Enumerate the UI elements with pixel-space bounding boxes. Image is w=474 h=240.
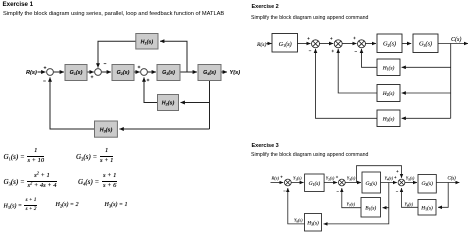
block ex3 G2: [362, 172, 381, 193]
svg-text:H2(s): H2(s): [382, 90, 395, 97]
sign plus at sum2: [91, 76, 94, 79]
sign minus sum3: [355, 51, 357, 53]
sign minus sum1: [283, 190, 285, 192]
summing junction sum2: [95, 69, 102, 76]
summing junction ex2 sum1: [312, 40, 320, 48]
sign minus sum3: [396, 191, 398, 193]
sign plus bypass into sum3: [396, 170, 398, 172]
block ex2 G3: [413, 34, 438, 53]
svg-text:G3(s): G3(s): [421, 180, 433, 187]
wire B1 output to sum2: [342, 188, 361, 208]
Exercise 3 subtitle: [251, 152, 368, 158]
svg-text:H3(s): H3(s): [306, 220, 319, 227]
summing junction ex3 sum3: [398, 179, 405, 186]
summing junction ex2 sum3: [358, 40, 366, 48]
svg-text:Y5(s): Y5(s): [406, 176, 415, 182]
wire G2 to sum3: [134, 71, 140, 73]
formula H2: [56, 202, 79, 208]
summing junction ex3 sum1: [284, 179, 291, 186]
formula G3: [4, 174, 57, 191]
svg-text:B1(s): B1(s): [365, 205, 376, 212]
svg-text:G1(s): G1(s): [279, 41, 292, 48]
Exercise 1 subtitle: [3, 11, 224, 17]
svg-text:G2(s): G2(s): [365, 180, 377, 187]
svg-text:Y3(s): Y3(s): [347, 176, 356, 182]
Exercise 2 subtitle: [251, 15, 368, 21]
wire sum1 to sum2: [320, 43, 334, 45]
wire sum3 to G2: [366, 43, 377, 45]
svg-text:H3(s): H3(s): [382, 115, 395, 122]
block H3: [95, 121, 118, 137]
svg-text:Y(s): Y(s): [230, 70, 241, 76]
sign plus sum2: [330, 37, 332, 39]
wire H3 output to sum1: [50, 77, 95, 129]
wire mid tap down to H3 bottom row: [324, 208, 389, 224]
block ex3 G3: [418, 175, 436, 194]
svg-text:G1(s): G1(s): [70, 70, 83, 76]
wire H3 output to sum1: [288, 188, 305, 224]
block ex3 H3: [305, 214, 322, 232]
svg-text:R(s): R(s): [271, 175, 280, 180]
svg-text:R(s): R(s): [256, 41, 266, 48]
sign minus sum2: [337, 191, 339, 193]
wire tap to H3 input: [402, 117, 451, 119]
wire G2 to G3: [402, 43, 411, 45]
Exercise 3 heading: [252, 143, 279, 149]
wire H1 output to sum3: [362, 49, 378, 67]
svg-text:Y4(s): Y4(s): [385, 176, 394, 182]
sign minus sum1: [309, 50, 311, 52]
wire sum1 to G1: [53, 71, 64, 73]
block H2: [158, 95, 179, 111]
wire G3 to C(s): [438, 43, 468, 45]
wire R(s) to G1: [267, 43, 272, 45]
wire mid tap down to B1: [383, 183, 389, 208]
formula G4: [78, 174, 117, 191]
block ex3 B1: [361, 198, 381, 218]
sign minus at sum2 top: [104, 63, 107, 65]
svg-text:G4(s): G4(s): [203, 70, 216, 76]
formula G1: [4, 149, 45, 166]
block ex2 H1: [377, 59, 400, 76]
wire sum2 to sum3: [342, 43, 356, 45]
svg-text:H2(s): H2(s): [162, 101, 175, 107]
wire G1 to sum2: [324, 182, 337, 184]
wire H2 output to sum2: [338, 49, 377, 93]
block ex3 H1: [418, 200, 436, 216]
sign plus before sum2: [336, 176, 338, 178]
block G4: [198, 65, 221, 81]
block G2: [112, 65, 134, 81]
sign plus sum1: [307, 37, 309, 39]
wire tap to H1 input: [402, 66, 451, 68]
svg-text:Y2(s): Y2(s): [326, 176, 335, 182]
svg-text:C(s): C(s): [451, 36, 461, 43]
svg-text:G3(s): G3(s): [162, 70, 175, 76]
formula G2: [76, 149, 113, 166]
block ex2 G1: [272, 34, 298, 53]
wire H1 output to sum2: [98, 41, 136, 67]
svg-text:G3(s): G3(s): [419, 41, 432, 48]
wire sum1 to G1: [291, 182, 303, 184]
svg-text:C(s): C(s): [448, 176, 457, 181]
svg-text:H3(s): H3(s): [100, 128, 113, 134]
svg-text:R(s): R(s): [26, 70, 37, 76]
wire sum3 to G3: [405, 182, 417, 184]
wire bypass sum2 to sum3 top: [357, 166, 402, 183]
formula H1: [4, 199, 38, 213]
summing junction ex2 sum2: [334, 40, 342, 48]
svg-text:Y7(s): Y7(s): [347, 202, 356, 208]
svg-text:G2(s): G2(s): [117, 70, 130, 76]
wire H1 output to sum3: [402, 188, 419, 207]
wire H2 output to sum3: [144, 77, 158, 102]
wire R(s) to sum1: [271, 182, 284, 184]
block ex2 G2: [377, 34, 402, 53]
block G3: [157, 65, 180, 81]
sign minus at sum1: [43, 80, 46, 82]
wire G4 bottom tap down: [209, 81, 211, 130]
wire sum2 to G2: [345, 182, 361, 184]
block H1: [136, 34, 158, 50]
sign plus at sum3 left: [138, 66, 141, 69]
wire node to H1 input: [160, 41, 187, 72]
wire tap to H2 input: [181, 102, 210, 104]
wire H3 output to sum1: [316, 49, 378, 118]
wire output tap vertical: [450, 44, 452, 119]
Exercise 2 heading: [252, 4, 279, 10]
sign plus after R(s): [280, 176, 282, 178]
wire tap to H2 input: [402, 92, 451, 94]
svg-text:H1(s): H1(s): [141, 40, 154, 46]
summing junction ex3 sum2: [338, 179, 345, 186]
sign plus at sum1: [44, 66, 47, 69]
Exercise 1 heading: [3, 1, 34, 8]
svg-text:Y8(s): Y8(s): [294, 218, 303, 224]
block G1: [65, 65, 87, 81]
summing junction sum3: [141, 69, 148, 76]
wire G3 to C(s): [436, 182, 459, 184]
formula H3: [105, 202, 128, 208]
sign plus sum2 bottom: [332, 50, 334, 52]
sign plus sum3: [353, 37, 355, 39]
svg-text:G2(s): G2(s): [383, 41, 396, 48]
wire G3 to G4 with node: [180, 71, 197, 73]
wire sum3 to G3: [147, 71, 156, 73]
svg-text:G1(s): G1(s): [309, 180, 321, 187]
wire G2 to sum3: [381, 182, 397, 184]
block ex2 H3: [377, 110, 400, 127]
svg-text:Y1(s): Y1(s): [293, 176, 302, 182]
wire sum2 to G2: [101, 71, 111, 73]
block ex2 H2: [377, 85, 400, 102]
wire tap to H3 input: [119, 128, 209, 130]
wire G4 to Y(s): [221, 71, 227, 73]
wire R(s) to sum1: [38, 71, 46, 73]
svg-text:H1(s): H1(s): [382, 64, 395, 71]
wire G1 to sum2: [87, 71, 94, 73]
sign plus at sum3 bottom: [147, 79, 150, 82]
wire output tap to H1: [438, 183, 448, 208]
sign plus before sum3: [394, 176, 396, 178]
svg-text:H1(s): H1(s): [420, 204, 433, 211]
summing junction sum1: [47, 69, 54, 76]
block ex3 G1: [305, 174, 325, 192]
wire G1 to sum1: [298, 43, 311, 45]
svg-text:Y6(s): Y6(s): [405, 202, 414, 208]
